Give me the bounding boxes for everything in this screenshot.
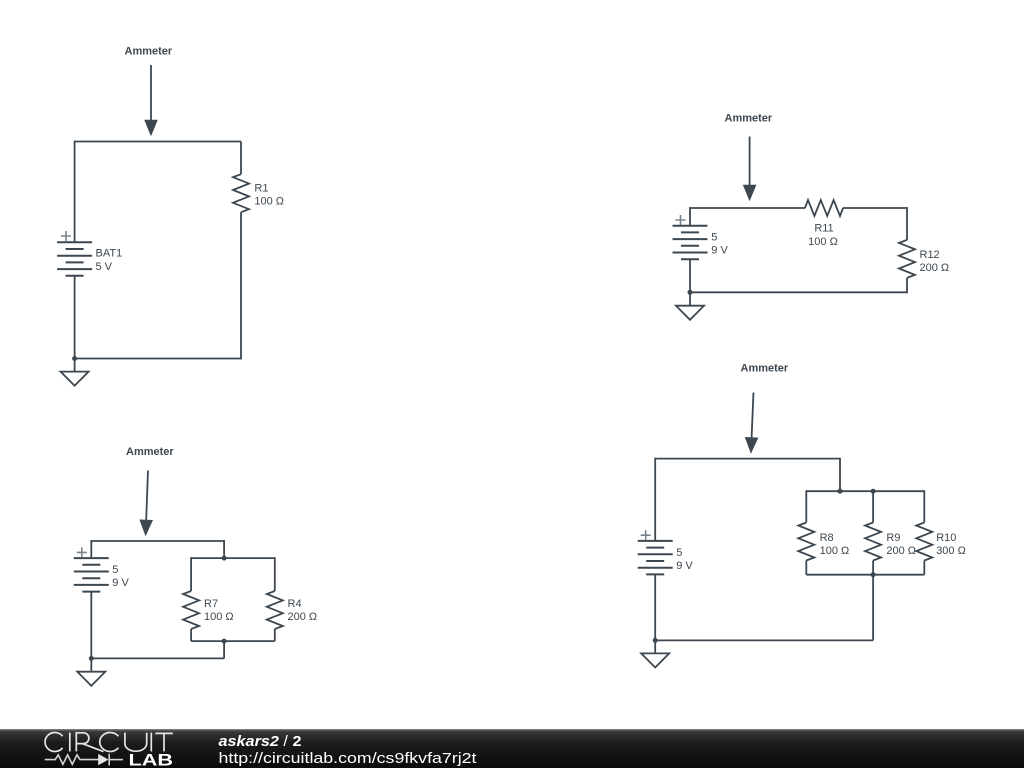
svg-text:R9: R9 (886, 532, 900, 544)
svg-text:9 V: 9 V (711, 245, 728, 257)
wire drop from rail (circuit 4) (872, 575, 874, 641)
wire right upper (circuit 1) (240, 142, 242, 175)
ground stem (circuit 1) (74, 359, 76, 372)
resistor R4 (267, 591, 283, 629)
wire right branch lower (circuit 3) (274, 629, 276, 641)
wire left branch lower (circuit 3) (190, 629, 192, 641)
svg-text:R1: R1 (254, 183, 268, 195)
wire top (circuit 1) (75, 141, 241, 143)
svg-text:100 Ω: 100 Ω (808, 236, 838, 248)
wire right lower (circuit 1) (240, 212, 242, 359)
battery BAT1 (57, 242, 92, 275)
bottom rail (circuit 3) (191, 640, 275, 642)
svg-text:100 Ω: 100 Ω (820, 545, 850, 557)
svg-text:Ammeter: Ammeter (741, 362, 789, 374)
wire drop to rail (circuit 4) (839, 458, 841, 492)
Ammeter arrow (circuit 4) (744, 392, 760, 454)
svg-text:LAB: LAB (129, 750, 174, 768)
svg-text:200 Ω: 200 Ω (920, 262, 950, 274)
plus sign (circuit 4 battery) (641, 530, 651, 540)
wire left lower (circuit 3) (90, 592, 92, 659)
junction dot bottom (circuit 3) (89, 656, 94, 661)
resistor R1 (233, 174, 249, 212)
top rail (circuit 4) (806, 490, 924, 492)
junction dot (circuit 2) (688, 290, 693, 295)
ground (circuit 4) (641, 653, 669, 667)
wire left lower (circuit 4) (654, 574, 656, 640)
battery (circuit 4, designator 5) (638, 541, 673, 575)
svg-text:9 V: 9 V (676, 560, 693, 572)
svg-text:http://circuitlab.com/cs9fkvfa: http://circuitlab.com/cs9fkvfa7rj2t (219, 751, 477, 767)
svg-text:200 Ω: 200 Ω (288, 611, 318, 623)
logo resistor-diode glyph (45, 754, 123, 766)
wire bottom (circuit 1) (75, 358, 241, 360)
bottom rail (circuit 4) (806, 574, 924, 576)
svg-text:R7: R7 (204, 598, 218, 610)
wire right branch upper (circuit 3) (274, 557, 276, 591)
svg-text:9 V: 9 V (112, 577, 129, 589)
wire bottom (circuit 4) (655, 639, 873, 641)
junction dot bottom rail (circuit 3) (222, 639, 227, 644)
svg-text:5: 5 (676, 547, 682, 559)
Ammeter arrow (circuit 1) (144, 65, 158, 136)
junction dot bottom rail (circuit 4) (871, 572, 876, 577)
svg-text:R12: R12 (920, 249, 940, 261)
plus sign (circuit 2 battery) (676, 215, 686, 225)
wire bottom (circuit 2) (690, 291, 907, 293)
svg-text:5: 5 (112, 564, 118, 576)
svg-text:100 Ω: 100 Ω (254, 196, 284, 208)
resistor R9 (865, 523, 881, 561)
logo CIRCUIT letters (45, 732, 173, 751)
junction dot top rail R9 (circuit 4) (871, 489, 876, 494)
top rail (circuit 3) (191, 557, 275, 559)
svg-text:5 V: 5 V (96, 261, 113, 273)
wire left upper (circuit 2) (689, 207, 691, 226)
junction dot top rail (circuit 3) (222, 556, 227, 561)
wire left lower (circuit 1) (74, 276, 76, 359)
svg-text:R4: R4 (288, 598, 302, 610)
svg-text:BAT1: BAT1 (96, 248, 123, 260)
wire top (circuit 4) (655, 458, 840, 460)
ground stem (circuit 4) (654, 640, 656, 653)
resistor R10 (916, 523, 932, 561)
plus sign BAT1 (61, 231, 71, 241)
wire branch R8 upper (circuit 4) (805, 490, 807, 522)
wire branch R9 lower (circuit 4) (872, 561, 874, 575)
wire left branch upper (circuit 3) (190, 557, 192, 591)
wire branch R8 lower (circuit 4) (805, 561, 807, 575)
resistor R7 (183, 591, 199, 629)
ground stem (circuit 2) (689, 292, 691, 305)
junction dot (circuit 1) (72, 356, 77, 361)
Ammeter arrow (circuit 3) (139, 470, 155, 536)
ground (circuit 1) (61, 372, 89, 386)
resistor R12 (899, 240, 915, 278)
resistor R8 (798, 523, 814, 561)
svg-text:Ammeter: Ammeter (125, 46, 173, 58)
plus sign (circuit 3 battery) (77, 547, 87, 557)
svg-text:300 Ω: 300 Ω (936, 545, 966, 557)
ground (circuit 3) (77, 672, 105, 686)
ground (circuit 2) (676, 306, 704, 320)
svg-text:200 Ω: 200 Ω (886, 545, 916, 557)
svg-text:R8: R8 (820, 532, 834, 544)
wire left upper (circuit 3) (90, 540, 92, 558)
wire bottom (circuit 3) (91, 657, 224, 659)
wire top-right (circuit 2) (843, 207, 907, 209)
wire top (circuit 2) (690, 207, 805, 209)
wire right upper (circuit 2) (906, 207, 908, 240)
battery (circuit 2, designator 5) (673, 226, 708, 260)
wire branch R9 upper (circuit 4) (872, 491, 874, 522)
logo diode triangle (98, 754, 108, 765)
wire left lower (circuit 2) (689, 259, 691, 292)
wire left upper (circuit 1) (74, 141, 76, 243)
wire branch R10 upper (circuit 4) (923, 490, 925, 522)
wire left upper (circuit 4) (654, 458, 656, 541)
battery (circuit 3, designator 5) (74, 558, 109, 592)
wire branch R10 lower (circuit 4) (923, 561, 925, 575)
junction dot bottom (circuit 4) (653, 638, 658, 643)
wire drop from rail (circuit 3) (223, 641, 225, 658)
svg-text:100 Ω: 100 Ω (204, 611, 234, 623)
wire right lower (circuit 2) (906, 278, 908, 293)
svg-text:5: 5 (711, 232, 717, 244)
junction dot rail-entry (circuit 4) (838, 489, 843, 494)
wire drop to rail (circuit 3) (223, 540, 225, 558)
resistor R11 (805, 200, 843, 216)
svg-text:askars2 / 2: askars2 / 2 (219, 734, 302, 750)
Ammeter arrow (circuit 2) (743, 137, 757, 202)
svg-text:R10: R10 (936, 532, 956, 544)
svg-text:Ammeter: Ammeter (725, 113, 773, 125)
svg-text:Ammeter: Ammeter (126, 446, 174, 458)
wire top (circuit 3) (91, 540, 224, 542)
svg-text:R11: R11 (814, 223, 833, 235)
ground stem (circuit 3) (90, 658, 92, 671)
